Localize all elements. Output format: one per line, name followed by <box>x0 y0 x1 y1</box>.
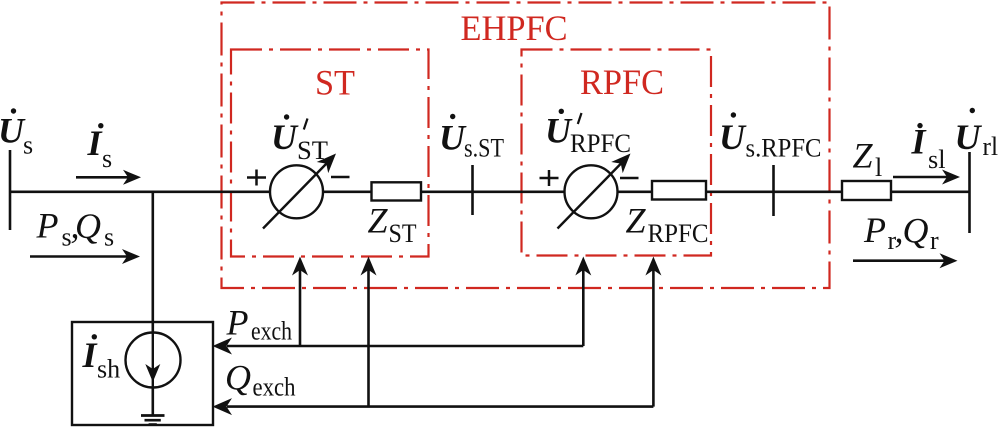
svg-text:U: U <box>439 118 467 158</box>
svg-text:Z: Z <box>853 136 874 176</box>
svg-text:exch: exch <box>251 317 292 346</box>
svg-text:EHPFC: EHPFC <box>461 8 568 48</box>
svg-text:RPFC: RPFC <box>648 219 709 248</box>
svg-text:rl: rl <box>983 132 998 161</box>
svg-text:U: U <box>271 117 299 157</box>
svg-text:s.ST: s.ST <box>464 134 504 163</box>
svg-text:P: P <box>863 210 886 250</box>
svg-text:s: s <box>104 223 114 252</box>
svg-text:s.RPFC: s.RPFC <box>746 134 822 163</box>
svg-text:I: I <box>87 123 104 163</box>
svg-text:l: l <box>875 153 882 182</box>
svg-text:Q: Q <box>903 211 929 251</box>
svg-text:P: P <box>226 302 249 342</box>
svg-text:U: U <box>719 117 747 157</box>
svg-text:sl: sl <box>928 145 946 174</box>
svg-text:sh: sh <box>97 354 120 383</box>
svg-text:r: r <box>930 226 939 255</box>
svg-text:P: P <box>36 206 59 246</box>
svg-text:U: U <box>955 117 983 157</box>
svg-text:exch: exch <box>253 373 296 402</box>
svg-text:ST: ST <box>389 219 417 248</box>
svg-text:RPFC: RPFC <box>570 129 631 158</box>
svg-text:RPFC: RPFC <box>580 62 664 102</box>
svg-text:ST: ST <box>315 63 355 103</box>
svg-text:I: I <box>82 335 99 375</box>
svg-text:Q: Q <box>75 206 101 246</box>
svg-text:s: s <box>102 144 112 173</box>
svg-text:Z: Z <box>626 201 647 241</box>
svg-text:ST: ST <box>297 136 328 165</box>
svg-text:Z: Z <box>368 201 389 241</box>
svg-text:U: U <box>545 111 573 151</box>
svg-text:Q: Q <box>225 358 251 398</box>
svg-text:s: s <box>23 131 33 160</box>
